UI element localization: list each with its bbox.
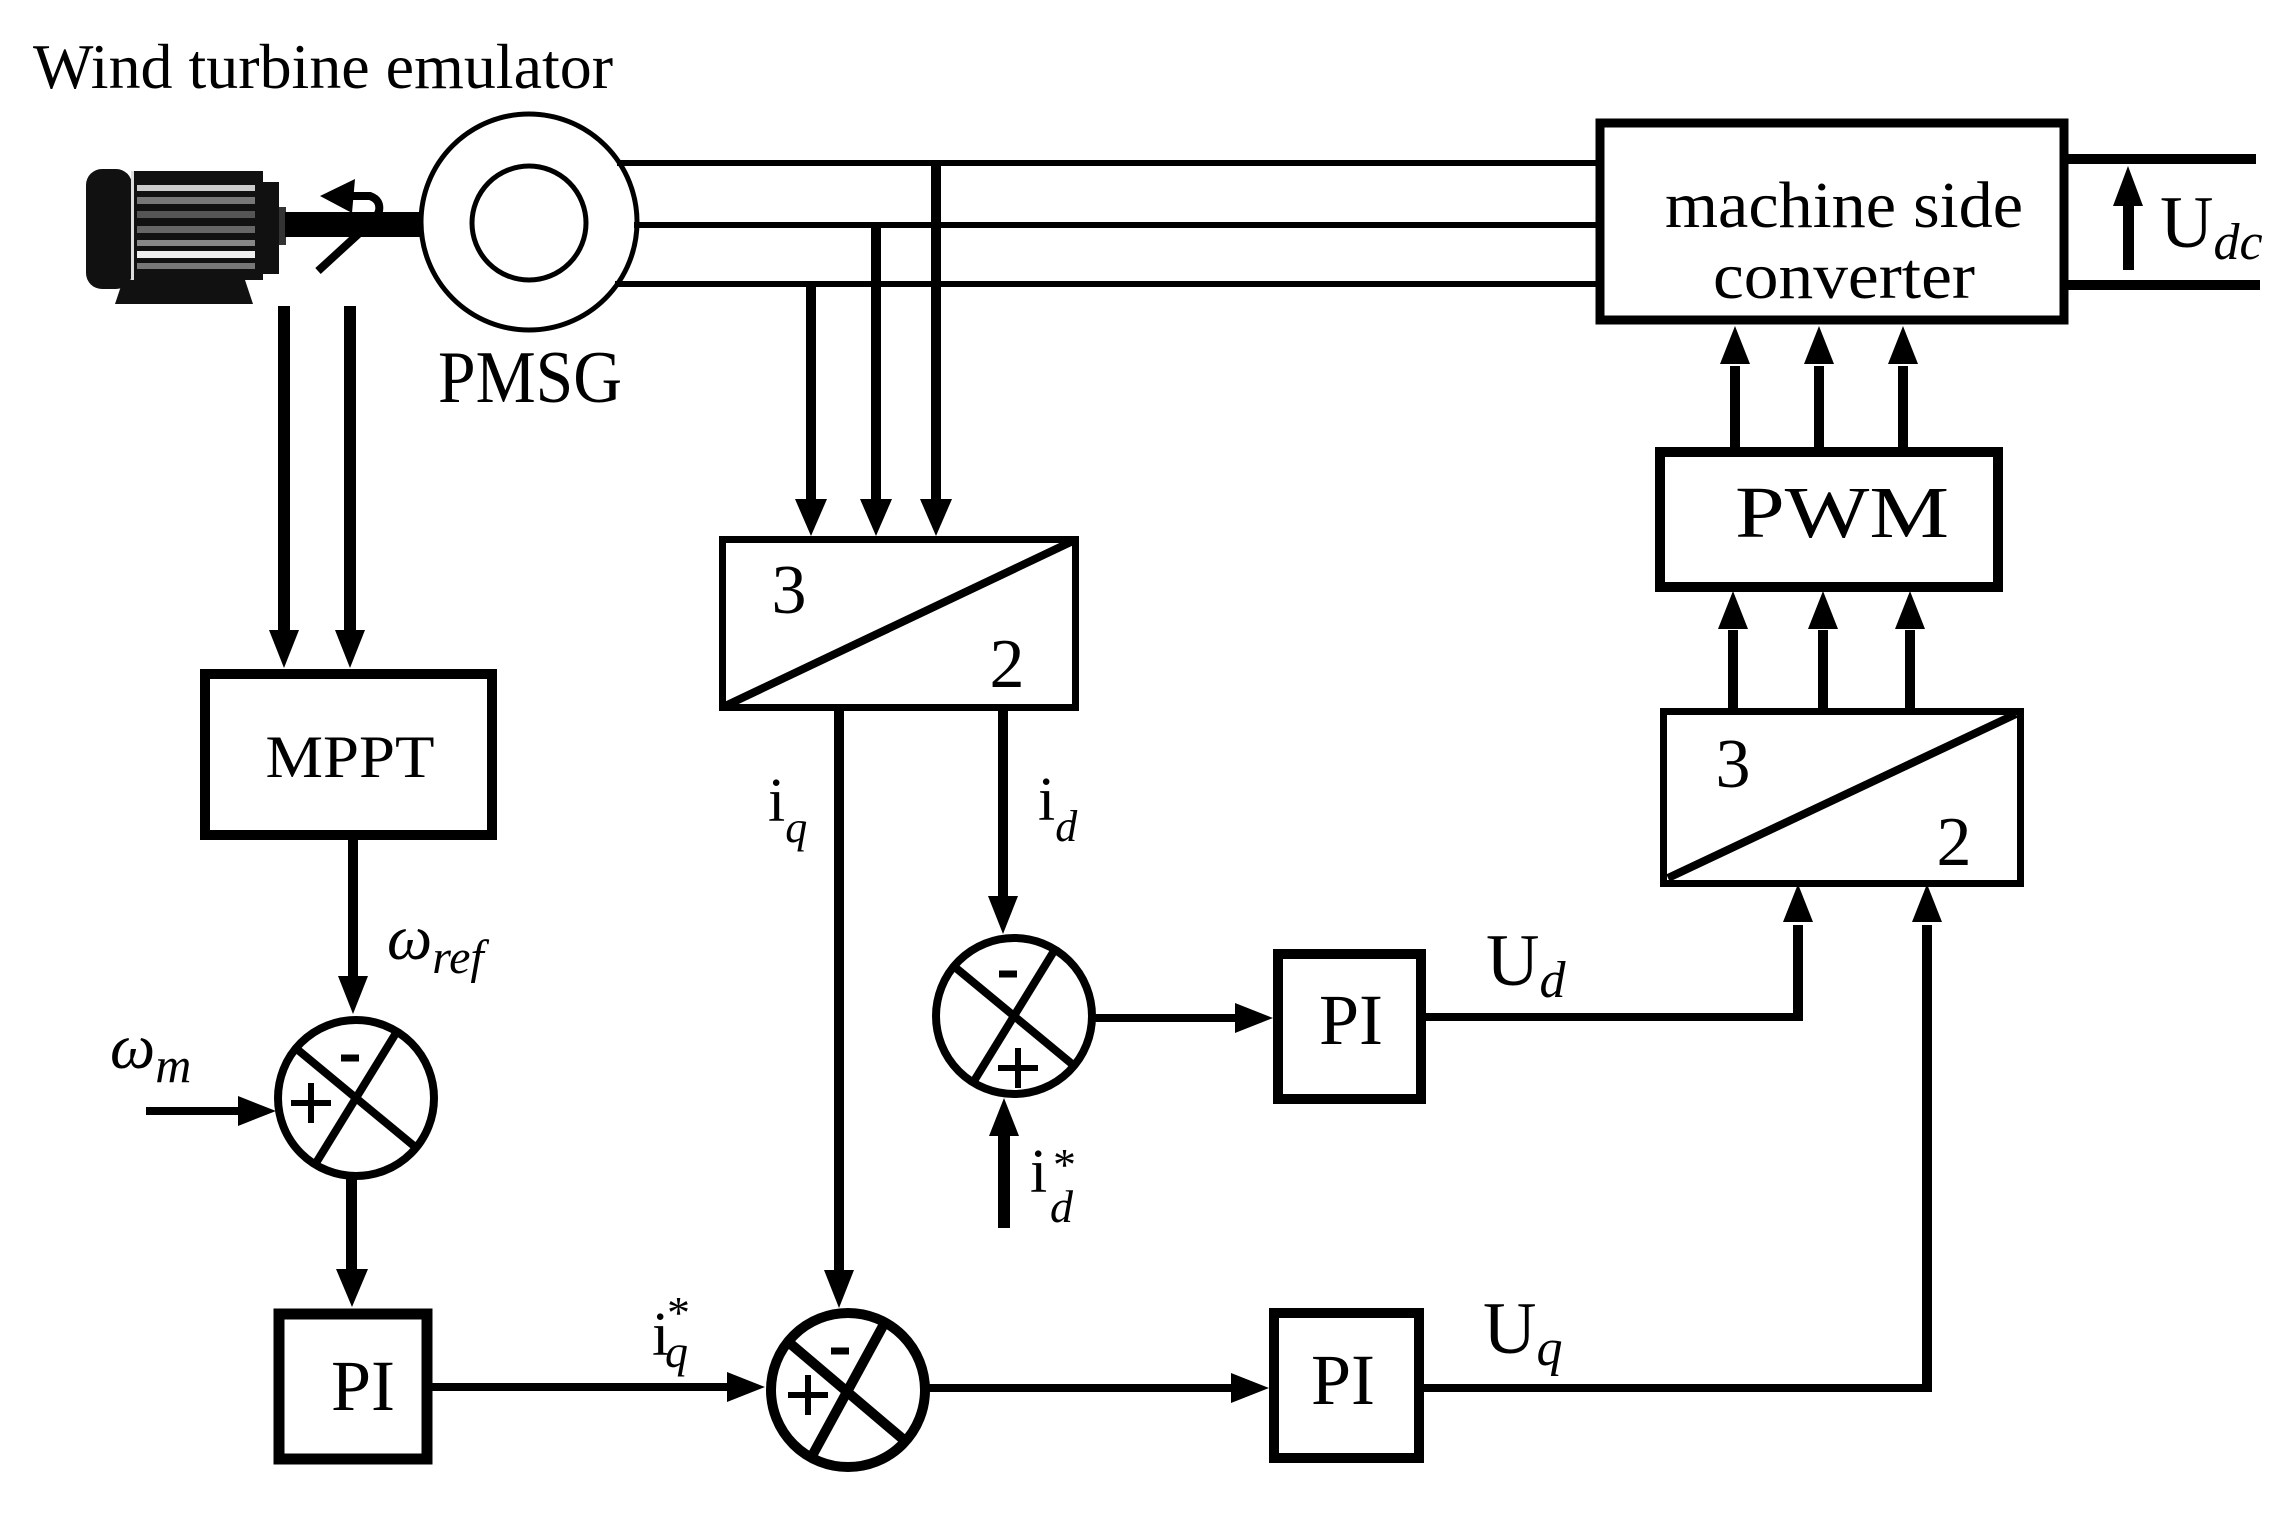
controller PI q-axis xyxy=(1274,1313,1419,1458)
svg-text:converter: converter xyxy=(1713,240,1975,313)
summing junction S2 (id loop) xyxy=(936,938,1092,1094)
controller PI speed xyxy=(279,1314,427,1459)
wire phase a (PMSG to machine side converter) xyxy=(617,160,1600,166)
sign plus (S2 bottom) xyxy=(998,1048,1038,1088)
block PWM xyxy=(1660,452,1998,587)
wire Ud (PI d to 3/2 right) xyxy=(1426,1013,1803,1021)
svg-text:3: 3 xyxy=(1716,726,1751,803)
svg-text:q: q xyxy=(665,1326,688,1377)
svg-text:d: d xyxy=(1050,1181,1074,1232)
wire iq (3/2 down to summing junction S3) xyxy=(834,711,844,1271)
wire iq* (PI speed to summing junction S3) xyxy=(429,1383,737,1391)
summing junction S1 (speed loop) xyxy=(278,1020,434,1176)
wire phase b xyxy=(634,222,1600,228)
wire S3 to PI q xyxy=(923,1384,1231,1392)
wire S2 to PI d xyxy=(1092,1014,1239,1022)
sign plus (S3 left) xyxy=(788,1375,828,1415)
svg-text:i: i xyxy=(1030,1138,1047,1206)
controller PI d-axis xyxy=(1278,954,1421,1099)
wire omega sensor 2 (motor to MPPT) xyxy=(344,306,356,632)
svg-text:2: 2 xyxy=(1937,804,1972,881)
svg-text:machine side: machine side xyxy=(1665,169,2023,242)
motor M (wind turbine emulator machine) xyxy=(86,169,286,304)
svg-text:2: 2 xyxy=(990,626,1025,703)
wire DC bus minus xyxy=(2064,280,2260,290)
wire tap ia (phase c down to 3/2) xyxy=(806,284,816,500)
svg-text:PI: PI xyxy=(1319,980,1383,1060)
block MPPT xyxy=(205,674,492,835)
wires PWM to machine side converter (3 arrows) xyxy=(1730,366,1740,449)
svg-text:Wind turbine emulator: Wind turbine emulator xyxy=(33,31,613,102)
sign minus (S2 top) xyxy=(999,971,1017,978)
wire tap ic (phase a down to 3/2) xyxy=(931,163,941,500)
generator PMSG symbol xyxy=(421,114,637,330)
wires 3/2 right to PWM (3 arrows) xyxy=(1728,630,1738,709)
svg-text:PMSG: PMSG xyxy=(438,337,622,419)
abc to dq transform block (3/2 current) xyxy=(723,540,1076,708)
arrow U_dc xyxy=(2123,200,2134,270)
wire phase c xyxy=(615,281,1600,287)
wire tap ib (phase b down to 3/2) xyxy=(871,225,881,500)
wire id (3/2 down to summing junction S2) xyxy=(998,711,1008,898)
rotation arrow on shaft xyxy=(318,196,379,271)
sign plus (S1 left) xyxy=(291,1083,331,1123)
sign minus (S1 top) xyxy=(341,1055,359,1062)
shaft (motor to PMSG) xyxy=(285,212,422,237)
wire omega_ref (MPPT to summing junction S1) xyxy=(348,839,358,978)
wire S1 to PI speed xyxy=(346,1176,357,1270)
wire DC bus plus xyxy=(2064,154,2256,164)
svg-text:3: 3 xyxy=(772,552,807,629)
wire omega sensor 1 (motor to MPPT) xyxy=(278,306,290,632)
svg-text:PI: PI xyxy=(331,1346,395,1426)
wire Uq (PI q to 3/2 right) xyxy=(1424,1384,1932,1392)
dq to abc transform block (3/2 voltage) xyxy=(1664,712,2021,884)
sign minus (S3 top) xyxy=(831,1348,849,1355)
arrow omega_m (into S1 left) xyxy=(146,1107,242,1115)
summing junction S3 (iq loop) xyxy=(771,1313,925,1467)
svg-text:PI: PI xyxy=(1311,1340,1375,1420)
machine side converter block xyxy=(1600,123,2064,320)
svg-text:MPPT: MPPT xyxy=(266,724,435,790)
svg-text:PWM: PWM xyxy=(1735,472,1949,553)
arrow id* (reference into S2 bottom) xyxy=(998,1134,1010,1228)
